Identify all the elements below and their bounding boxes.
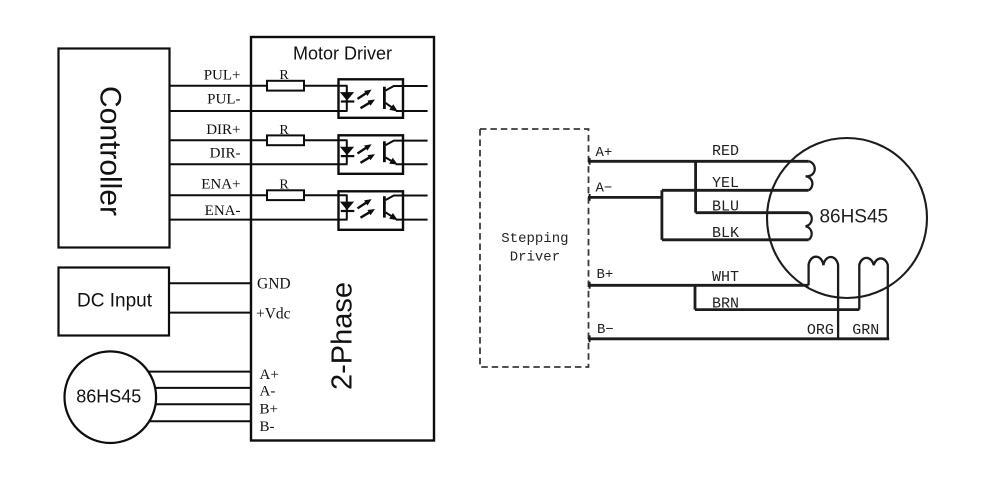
svg-text:A+: A+ — [596, 145, 613, 161]
wire DIR+ controller to resistor — [170, 139, 268, 141]
optocoupler U3 — [339, 191, 428, 230]
motor M2 circle — [767, 138, 927, 298]
svg-text:PUL-: PUL- — [207, 92, 240, 108]
wire B- motor to driver — [112, 420, 251, 422]
svg-text:ENA+: ENA+ — [201, 177, 240, 193]
wire BLK — [662, 238, 809, 241]
wire PUL+ resistor to opto — [304, 85, 348, 87]
svg-text:86HS45: 86HS45 — [76, 386, 141, 406]
wire +Vdc — [169, 312, 251, 314]
wire BLU — [696, 211, 809, 214]
wire BRN — [695, 308, 859, 311]
svg-text:ENA-: ENA- — [205, 203, 241, 219]
wire A+ motor to driver — [112, 371, 251, 373]
svg-text:PUL+: PUL+ — [204, 68, 241, 84]
wire B+ motor to driver — [112, 403, 251, 405]
svg-text:WHT: WHT — [712, 269, 739, 286]
resistor R2 — [267, 135, 304, 145]
optocoupler U1 — [339, 79, 428, 118]
resistor R1 — [267, 81, 304, 91]
svg-text:R: R — [279, 178, 289, 193]
wire DIR+ resistor to opto — [304, 139, 348, 141]
coil phase B1 (WHT-ORG) with ORG lead — [809, 257, 839, 339]
svg-text:RED: RED — [712, 143, 739, 160]
svg-text:B−: B− — [597, 322, 614, 338]
wire junction RED-BLU — [694, 161, 697, 212]
dc input box — [59, 268, 170, 336]
terminal tick A+ — [589, 158, 591, 165]
svg-text:B-: B- — [260, 419, 275, 435]
svg-text:GND: GND — [257, 275, 291, 292]
svg-text:86HS45: 86HS45 — [819, 206, 888, 227]
wire PUL- controller to opto — [170, 110, 348, 112]
svg-text:BRN: BRN — [712, 295, 739, 312]
stepping driver dashed box — [480, 129, 589, 367]
terminal tick A- — [589, 194, 591, 201]
wire ENA+ controller to resistor — [170, 194, 268, 196]
svg-text:A−: A− — [596, 181, 613, 197]
optocoupler U2 — [339, 135, 428, 174]
svg-text:DIR+: DIR+ — [206, 122, 240, 138]
coil phase A2 (BLU-BLK) — [806, 213, 812, 240]
svg-text:2-Phase: 2-Phase — [326, 282, 358, 390]
svg-text:Stepping: Stepping — [501, 231, 568, 247]
svg-text:R: R — [279, 68, 289, 83]
resistor R3 — [267, 190, 304, 200]
svg-text:DIR-: DIR- — [210, 146, 241, 162]
wire A- — [588, 196, 662, 199]
svg-text:R: R — [279, 123, 289, 138]
wire DIR- controller to opto — [170, 163, 348, 165]
wire B- — [588, 337, 889, 340]
svg-text:BLK: BLK — [712, 225, 739, 242]
svg-text:+Vdc: +Vdc — [256, 305, 291, 322]
svg-text:Driver: Driver — [510, 250, 560, 266]
wire A- motor to driver — [112, 387, 251, 389]
wire GND — [169, 282, 251, 284]
motor driver box — [251, 37, 434, 441]
svg-text:BLU: BLU — [712, 198, 739, 215]
svg-text:DC Input: DC Input — [77, 291, 153, 312]
svg-text:Motor Driver: Motor Driver — [293, 44, 392, 64]
wire junction WHT-BRN — [694, 285, 697, 309]
wire YEL — [662, 189, 809, 192]
svg-text:YEL: YEL — [712, 175, 739, 192]
controller box — [59, 49, 170, 248]
wire PUL+ controller to resistor — [170, 85, 268, 87]
svg-text:Controller: Controller — [94, 86, 127, 216]
motor M1 circle — [65, 351, 157, 443]
terminal tick B- — [589, 335, 591, 342]
svg-text:B+: B+ — [260, 402, 278, 418]
wire B+/WHT — [588, 284, 809, 287]
svg-text:ORG: ORG — [807, 322, 834, 339]
wire ENA+ resistor to opto — [304, 194, 348, 196]
svg-text:A+: A+ — [260, 367, 279, 383]
svg-text:GRN: GRN — [852, 322, 879, 339]
svg-text:A-: A- — [260, 384, 276, 400]
terminal tick B+ — [589, 282, 591, 289]
wire A+/RED — [588, 160, 809, 163]
svg-text:B+: B+ — [597, 267, 614, 283]
wire ENA- controller to opto — [170, 219, 348, 221]
coil phase B2 (BRN-GRN) with GRN lead — [859, 258, 888, 339]
wire junction YEL-BLK — [661, 190, 664, 240]
coil phase A1 (RED-YEL) — [806, 161, 815, 190]
